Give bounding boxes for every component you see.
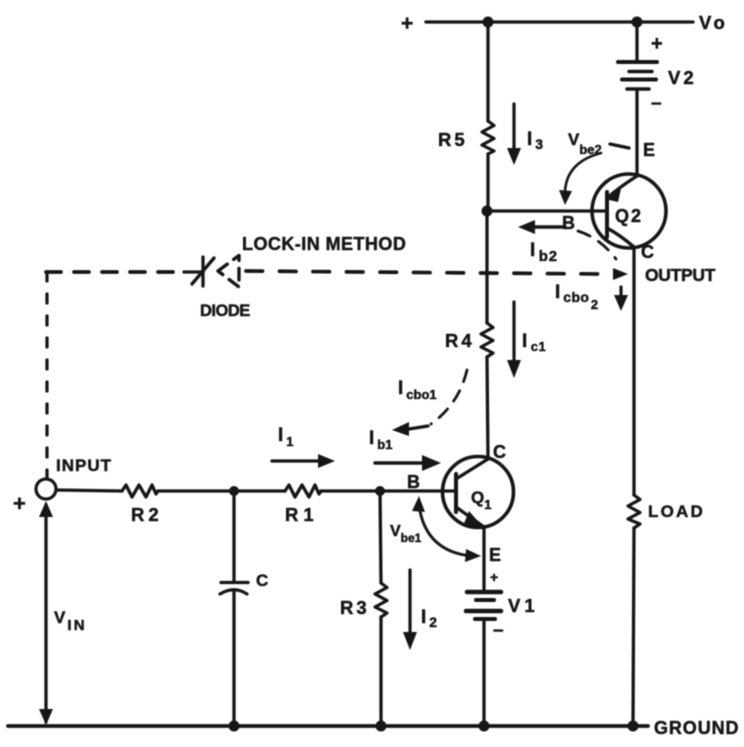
diode anode triangle (dashed) bbox=[218, 256, 239, 288]
svg-text:LOCK-IN METHOD: LOCK-IN METHOD bbox=[242, 234, 406, 254]
resistor R5 bbox=[482, 121, 494, 154]
svg-text:E: E bbox=[643, 140, 655, 160]
svg-text:LOAD: LOAD bbox=[648, 502, 705, 521]
svg-text:Q2: Q2 bbox=[615, 206, 643, 226]
transistor Q2 bbox=[592, 174, 666, 248]
resistor R2 bbox=[122, 485, 158, 497]
svg-text:E: E bbox=[489, 545, 501, 565]
lock-in arrow into output wire bbox=[613, 268, 628, 280]
svg-text:OUTPUT: OUTPUT bbox=[645, 265, 716, 285]
svg-text:Q1: Q1 bbox=[471, 488, 491, 512]
svg-text:Vbe1: Vbe1 bbox=[390, 523, 422, 545]
dashed lock-in wire vertical bbox=[45, 272, 48, 477]
wire R4 top bbox=[485, 211, 488, 323]
current arrow Ic1 bbox=[507, 302, 521, 378]
svg-text:V2: V2 bbox=[668, 67, 697, 88]
svg-text:Ib2: Ib2 bbox=[530, 240, 558, 265]
diode cathode bar bbox=[184, 257, 214, 286]
wire V2 top bbox=[635, 22, 638, 60]
current arrow I2 bbox=[403, 570, 417, 650]
svg-text:Vo: Vo bbox=[699, 12, 728, 33]
svg-text:I1: I1 bbox=[278, 425, 294, 449]
battery V2 bbox=[618, 62, 657, 89]
wire R3 top bbox=[380, 491, 381, 583]
svg-text:C: C bbox=[256, 571, 268, 590]
voltage arrow Vin (double headed) bbox=[39, 501, 53, 725]
wire capacitor bottom bbox=[232, 591, 235, 726]
svg-text:I3: I3 bbox=[527, 129, 543, 152]
wire Q2 base bbox=[487, 209, 607, 212]
svg-text:+: + bbox=[401, 12, 413, 35]
input terminal circle bbox=[36, 479, 56, 499]
wire input row segment 1 bbox=[56, 490, 122, 491]
leakage arc Icbo1 (dashed) bbox=[431, 370, 467, 424]
node junction dot R5/R4/base bbox=[482, 206, 493, 217]
svg-text:DIODE: DIODE bbox=[200, 302, 250, 320]
leakage arrow Icbo1 bbox=[392, 422, 428, 436]
current arrow Ib1 bbox=[375, 455, 441, 471]
svg-text:GROUND: GROUND bbox=[654, 718, 739, 738]
wire R3 bottom bbox=[379, 617, 382, 726]
svg-text:I2: I2 bbox=[421, 607, 437, 630]
svg-text:C: C bbox=[641, 242, 654, 262]
current arrow I3 bbox=[507, 104, 521, 165]
wire R4 bottom to Q1 collector bbox=[487, 357, 488, 459]
node junction dot top-right bbox=[632, 17, 643, 28]
resistor R4 bbox=[481, 323, 493, 357]
svg-text:Ib1: Ib1 bbox=[369, 428, 392, 452]
svg-text:Icbo1: Icbo1 bbox=[398, 378, 437, 402]
current arrow Ib2 bbox=[518, 220, 565, 234]
battery V1 bbox=[466, 592, 501, 619]
wire Q1 emitter to V1 bbox=[482, 527, 485, 589]
voltage arc Vbe1 bbox=[412, 496, 481, 562]
leakage arc Icbo2 (dashed) bbox=[578, 231, 616, 259]
svg-text:C: C bbox=[493, 442, 506, 462]
wire input row segment 3 bbox=[321, 489, 456, 492]
node ground dot R3 bbox=[376, 721, 387, 732]
svg-text:R5: R5 bbox=[438, 129, 468, 150]
svg-text:–: – bbox=[493, 620, 504, 641]
wire capacitor top bbox=[232, 491, 235, 580]
wire V2 bottom to Q2 emitter bbox=[635, 91, 638, 176]
svg-text:B: B bbox=[407, 472, 420, 492]
leakage arrow Icbo2 bbox=[614, 287, 628, 311]
wire input row segment 2 bbox=[158, 489, 285, 492]
wire LOAD bottom bbox=[633, 528, 634, 726]
voltage arc Vbe2 bbox=[559, 153, 601, 205]
svg-text:+: + bbox=[490, 569, 498, 585]
top supply rail wire bbox=[426, 20, 693, 23]
svg-text:R4: R4 bbox=[445, 330, 475, 351]
svg-text:INPUT: INPUT bbox=[56, 456, 112, 475]
svg-text:R1: R1 bbox=[285, 504, 319, 525]
dashed lock-in wire horizontal bbox=[46, 271, 601, 274]
node ground dot C bbox=[229, 721, 240, 732]
current arrow I1 bbox=[272, 454, 335, 468]
capacitor C bbox=[220, 583, 248, 595]
ground rail wire bbox=[8, 724, 648, 728]
resistor R3 bbox=[375, 583, 387, 617]
node ground dot V1 bbox=[479, 721, 490, 732]
wire Q2 collector / output down bbox=[632, 247, 635, 495]
resistor LOAD bbox=[628, 495, 640, 528]
svg-text:+: + bbox=[651, 33, 663, 55]
svg-text:V1: V1 bbox=[508, 595, 539, 616]
node ground dot LOAD bbox=[628, 721, 639, 732]
node junction dot R3 branch bbox=[375, 486, 385, 496]
node junction dot C branch bbox=[229, 486, 239, 496]
svg-text:VIN: VIN bbox=[54, 608, 87, 634]
wire R5 top bbox=[486, 22, 489, 121]
svg-text:+: + bbox=[13, 491, 26, 516]
resistor R1 bbox=[285, 485, 321, 497]
svg-text:R3: R3 bbox=[340, 597, 370, 618]
svg-text:B: B bbox=[562, 213, 575, 233]
node junction dot top-left bbox=[483, 17, 494, 28]
svg-text:R2: R2 bbox=[131, 504, 163, 525]
wire R5 bottom bbox=[486, 154, 489, 211]
wire V1 bottom bbox=[482, 621, 485, 726]
voltage label Vbe2 with pointer bbox=[568, 130, 629, 157]
svg-text:Icbo2: Icbo2 bbox=[555, 282, 598, 312]
svg-text:Ic1: Ic1 bbox=[522, 331, 546, 354]
transistor Q1 bbox=[443, 457, 514, 528]
svg-text:–: – bbox=[651, 93, 662, 114]
